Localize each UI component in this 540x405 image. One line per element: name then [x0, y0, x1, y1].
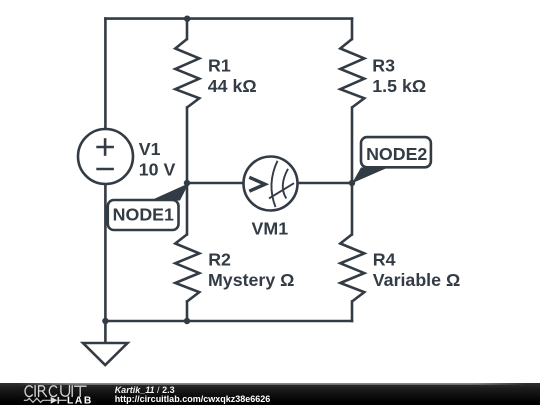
- resistor R2: [175, 234, 199, 301]
- node junction dot ground net left: [102, 318, 108, 324]
- svg-text:http://circuitlab.com/cwxqkz38: http://circuitlab.com/cwxqkz38e6626: [115, 394, 271, 404]
- node junction dot ground net R2: [184, 318, 190, 324]
- voltmeter VM1: [244, 157, 298, 211]
- svg-text:1.5 kΩ: 1.5 kΩ: [372, 76, 426, 96]
- svg-text:Variable Ω: Variable Ω: [373, 270, 460, 290]
- node NODE1 callout pointer: [151, 183, 189, 200]
- logo diode: [51, 397, 58, 404]
- svg-text:R3: R3: [372, 56, 395, 76]
- svg-text:10 V: 10 V: [139, 160, 176, 180]
- wire node1 to VM1 left: [187, 182, 244, 185]
- footer bar: [0, 383, 540, 405]
- wire R1 top lead: [186, 19, 189, 39]
- svg-text:Mystery Ω: Mystery Ω: [208, 270, 294, 290]
- wire ground lead: [104, 321, 107, 343]
- logo resistor zigzag: [24, 398, 51, 402]
- node NODE2 callout box: [361, 137, 431, 167]
- wire left vertical V1 to bottom: [104, 184, 107, 321]
- resistor R3: [340, 39, 364, 108]
- svg-text:VM1: VM1: [252, 218, 289, 238]
- svg-text:V1: V1: [139, 139, 161, 159]
- svg-text:R1: R1: [208, 56, 231, 76]
- wire VM1 right to node2: [298, 182, 353, 185]
- svg-text:LAB: LAB: [67, 396, 93, 405]
- wire top horizontal net: [105, 17, 352, 20]
- wire left vertical from top to V1: [104, 19, 107, 129]
- svg-text:R2: R2: [208, 250, 231, 270]
- svg-text:NODE2: NODE2: [366, 144, 427, 164]
- node NODE1 callout box: [108, 200, 179, 230]
- resistor R4: [340, 234, 364, 301]
- logo CIRCUIT text: [25, 386, 86, 397]
- wire R4 top lead: [351, 183, 354, 234]
- wire R1 bottom lead to node1: [186, 108, 189, 184]
- wire R2 bottom lead: [186, 302, 189, 322]
- node junction dot NODE2: [349, 180, 355, 186]
- svg-text:R4: R4: [373, 250, 396, 270]
- node junction dot NODE1: [184, 180, 190, 186]
- wire R3 top lead: [351, 19, 354, 39]
- node junction dot top (R1/top net): [184, 16, 190, 22]
- svg-text:NODE1: NODE1: [113, 205, 174, 225]
- voltage source V1: [78, 129, 133, 184]
- svg-text:44 kΩ: 44 kΩ: [208, 76, 257, 96]
- wire R4 bottom lead: [351, 302, 354, 322]
- resistor R1: [175, 39, 199, 108]
- wire R2 top lead: [186, 183, 189, 234]
- wire R3 bottom lead to node2: [351, 108, 354, 184]
- node NODE2 callout pointer: [352, 168, 388, 184]
- wire bottom horizontal net: [105, 320, 352, 323]
- ground: [83, 343, 128, 365]
